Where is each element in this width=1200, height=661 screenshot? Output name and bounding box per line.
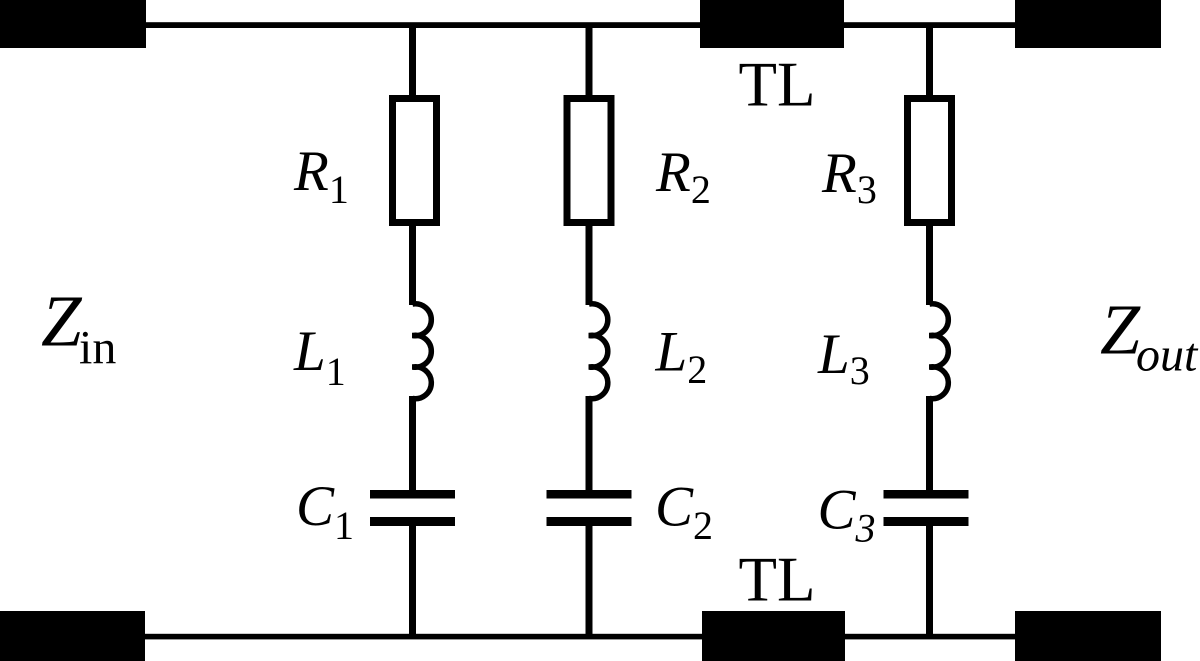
svg-text:L3: L3 <box>817 323 870 393</box>
capacitor C2 plate bottom <box>547 517 632 526</box>
capacitor C3 plate bottom <box>884 517 969 526</box>
wire branch2 vertical <box>586 24 593 98</box>
wire branch3 resistor-to-inductor <box>926 220 933 305</box>
wire branch3 capacitor-to-bottom <box>926 524 933 639</box>
wire branch2 capacitor-to-bottom <box>586 524 593 639</box>
svg-text:C1: C1 <box>296 475 354 548</box>
port block top-left <box>0 0 146 48</box>
wire branch2 resistor-to-inductor <box>586 220 593 305</box>
svg-text:R2: R2 <box>655 141 711 212</box>
inductor L1 <box>413 304 432 399</box>
transmission line TL block bottom-middle <box>702 611 845 661</box>
wire branch2 inductor-to-capacitor <box>586 396 593 492</box>
capacitor C1 plate top <box>370 490 455 499</box>
wire branch1 capacitor-to-bottom <box>409 524 416 639</box>
wire branch1 vertical <box>409 24 416 98</box>
port block bottom-right <box>1015 611 1161 661</box>
inductor L2 <box>589 304 608 399</box>
capacitor C2 plate top <box>547 490 632 499</box>
wire bottom bus <box>0 634 1161 640</box>
resistor R1 <box>393 99 437 223</box>
wire branch3 vertical <box>926 24 933 98</box>
svg-text:TL: TL <box>739 545 816 615</box>
svg-text:TL: TL <box>739 50 816 120</box>
inductor L3 <box>930 304 949 399</box>
capacitor C3 plate top <box>884 490 969 499</box>
capacitor C1 plate bottom <box>370 517 455 526</box>
resistor R3 <box>908 99 952 223</box>
svg-text:C3: C3 <box>818 479 876 551</box>
resistor R2 <box>567 99 611 223</box>
svg-text:R3: R3 <box>821 142 877 212</box>
svg-text:L2: L2 <box>655 321 708 393</box>
wire branch3 inductor-to-capacitor <box>926 396 933 492</box>
svg-text:Zin: Zin <box>41 281 116 375</box>
port block top-right <box>1015 0 1161 48</box>
svg-text:C2: C2 <box>655 476 713 549</box>
svg-text:L1: L1 <box>293 320 346 394</box>
transmission line TL block top-middle <box>700 0 844 48</box>
svg-text:R1: R1 <box>293 140 349 212</box>
port block bottom-left <box>0 611 145 661</box>
svg-text:Zout: Zout <box>1100 290 1199 382</box>
wire branch1 inductor-to-capacitor <box>409 396 416 492</box>
wire branch1 resistor-to-inductor <box>409 220 416 305</box>
wire top bus <box>0 22 1160 28</box>
